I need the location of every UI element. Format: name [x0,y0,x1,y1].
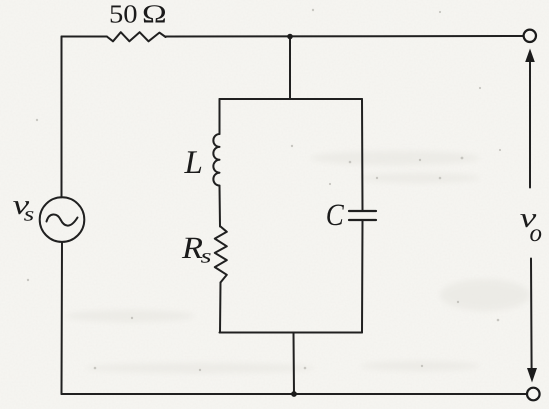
svg-text:s: s [201,245,212,267]
svg-text:Ω: Ω [142,0,167,29]
svg-text:L: L [184,145,203,181]
svg-text:50: 50 [109,0,138,29]
svg-text:o: o [530,220,543,247]
svg-text:s: s [24,204,35,226]
svg-text:C: C [326,197,344,232]
